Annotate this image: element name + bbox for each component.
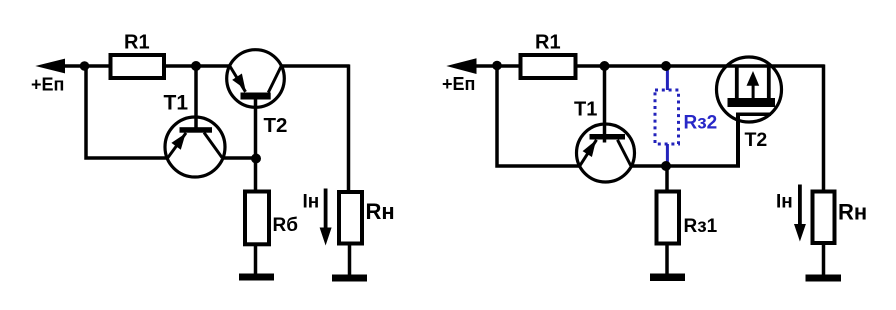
- ground bar under Rb: [239, 274, 274, 281]
- transistor T1 circle (right): [577, 124, 635, 182]
- MOSFET T2 source vertical (right): [735, 65, 739, 100]
- In current arrowhead (left): [320, 228, 332, 246]
- In current arrow line (left): [324, 189, 328, 231]
- blue wire: Rz2 top lead: [666, 66, 669, 90]
- ground bar under Rn (right): [806, 275, 842, 282]
- T1 emitter arrowhead (right, PNP): [583, 140, 597, 157]
- svg-text:Rз1: Rз1: [684, 216, 718, 237]
- node D junction dot (right, after arrow): [492, 61, 502, 71]
- wire: top rail corner down to Rn (left): [347, 65, 351, 192]
- MOSFET T2 circle (right): [717, 57, 782, 122]
- resistor Rn body (left): [339, 192, 362, 244]
- wire: T1 collector to T2 base node: [222, 156, 256, 160]
- wire: top rail from T2 right edge to load corner: [281, 64, 350, 68]
- wire: T1 base lead (left): [194, 66, 198, 130]
- In current arrow line (right): [798, 185, 802, 227]
- wire: from node D down then right to T1 emitter (right): [497, 66, 581, 166]
- wire: MOSFET gate lead up: [736, 114, 740, 166]
- +Ep supply arrow (right): [446, 58, 476, 74]
- wire: node C to Rb: [254, 159, 258, 192]
- wire: T1 collector right to MOSFET gate lead corner: [631, 164, 740, 168]
- T1 emitter diagonal (left): [168, 133, 186, 158]
- T1 emitter diagonal (right): [580, 140, 597, 166]
- wire: Rn to ground (left): [348, 246, 352, 276]
- wire: T2 base lead down to node C: [254, 98, 258, 159]
- resistor Rz2 dashed body (blue): [655, 90, 679, 144]
- MOSFET T2 substrate arrowhead (points up): [747, 71, 760, 86]
- wire: Rn to ground (right): [822, 245, 826, 275]
- wire: top rail from +Ep arrow to T2 left edge: [58, 64, 230, 68]
- svg-text:Rн: Rн: [838, 199, 867, 224]
- resistor Rz1 body: [657, 192, 680, 244]
- In current arrowhead (right): [794, 224, 806, 242]
- MOSFET T2 drain vertical (right): [767, 65, 771, 100]
- wire: node F to Rz1: [665, 166, 669, 191]
- T2 emitter diagonal (left): [230, 66, 246, 92]
- T1 base bar (left): [180, 127, 213, 133]
- svg-text:T1: T1: [164, 91, 189, 114]
- svg-text:Iн: Iн: [776, 192, 793, 213]
- resistor Rb body (left): [245, 192, 269, 245]
- T1 collector diagonal (left): [204, 133, 222, 158]
- resistor Rn body (right): [813, 192, 835, 244]
- svg-text:R1: R1: [124, 32, 150, 54]
- svg-text:+Еп: +Еп: [31, 75, 64, 95]
- node B junction dot (left, T1 base tap): [191, 61, 201, 71]
- T1 base bar (right): [590, 134, 626, 140]
- svg-text:Rз2: Rз2: [684, 113, 718, 134]
- svg-text:+Еп: +Еп: [442, 74, 475, 94]
- resistor R1 (right) body: [521, 55, 576, 78]
- T1 collector diagonal (right): [618, 140, 631, 166]
- ground bar under Rz1: [650, 274, 685, 282]
- MOSFET T2 channel bar (right): [728, 98, 776, 107]
- MOSFET gate line: [736, 113, 771, 117]
- wire: top rail (right circuit): [469, 64, 825, 68]
- blue wire: Rz2 bottom lead: [666, 144, 669, 165]
- T2 base bar (left): [241, 93, 271, 100]
- wire: T1 base lead (right): [603, 66, 607, 143]
- node C junction dot (left, T2 base / Rb top): [251, 154, 261, 164]
- svg-text:T1: T1: [574, 99, 597, 121]
- T2 emitter arrowhead (left, PNP): [232, 74, 245, 90]
- node E junction dot (right, T1 base tap): [600, 61, 610, 71]
- svg-text:T2: T2: [745, 129, 768, 151]
- svg-text:T2: T2: [264, 114, 288, 137]
- transistor T2 circle (left): [227, 50, 285, 108]
- svg-text:Iн: Iн: [303, 192, 320, 213]
- node G junction dot (right, Rz2 top tap): [661, 61, 671, 71]
- transistor T1 circle (left): [165, 117, 225, 177]
- wire: top rail corner down to Rn (right): [822, 65, 826, 191]
- +Ep supply arrow (left): [35, 59, 65, 74]
- wire: Rb to ground: [254, 246, 258, 274]
- ground bar under Rn (left): [332, 275, 367, 282]
- svg-text:Rн: Rн: [366, 199, 395, 224]
- svg-text:R1: R1: [535, 32, 561, 54]
- T1 emitter arrowhead (left, PNP): [171, 133, 185, 149]
- node A junction dot (left, after arrow): [80, 61, 90, 71]
- svg-text:Rб: Rб: [273, 215, 298, 236]
- wire: from node A down then right to T1 emitter: [86, 66, 169, 158]
- T2 collector diagonal (left): [268, 66, 281, 93]
- wire: Rz1 to ground: [665, 246, 669, 275]
- resistor R1 (left) body: [111, 55, 165, 78]
- node F junction dot (right, Rz2 bottom / Rz1 top): [661, 161, 671, 171]
- MOSFET T2 substrate arrow line: [752, 84, 755, 98]
